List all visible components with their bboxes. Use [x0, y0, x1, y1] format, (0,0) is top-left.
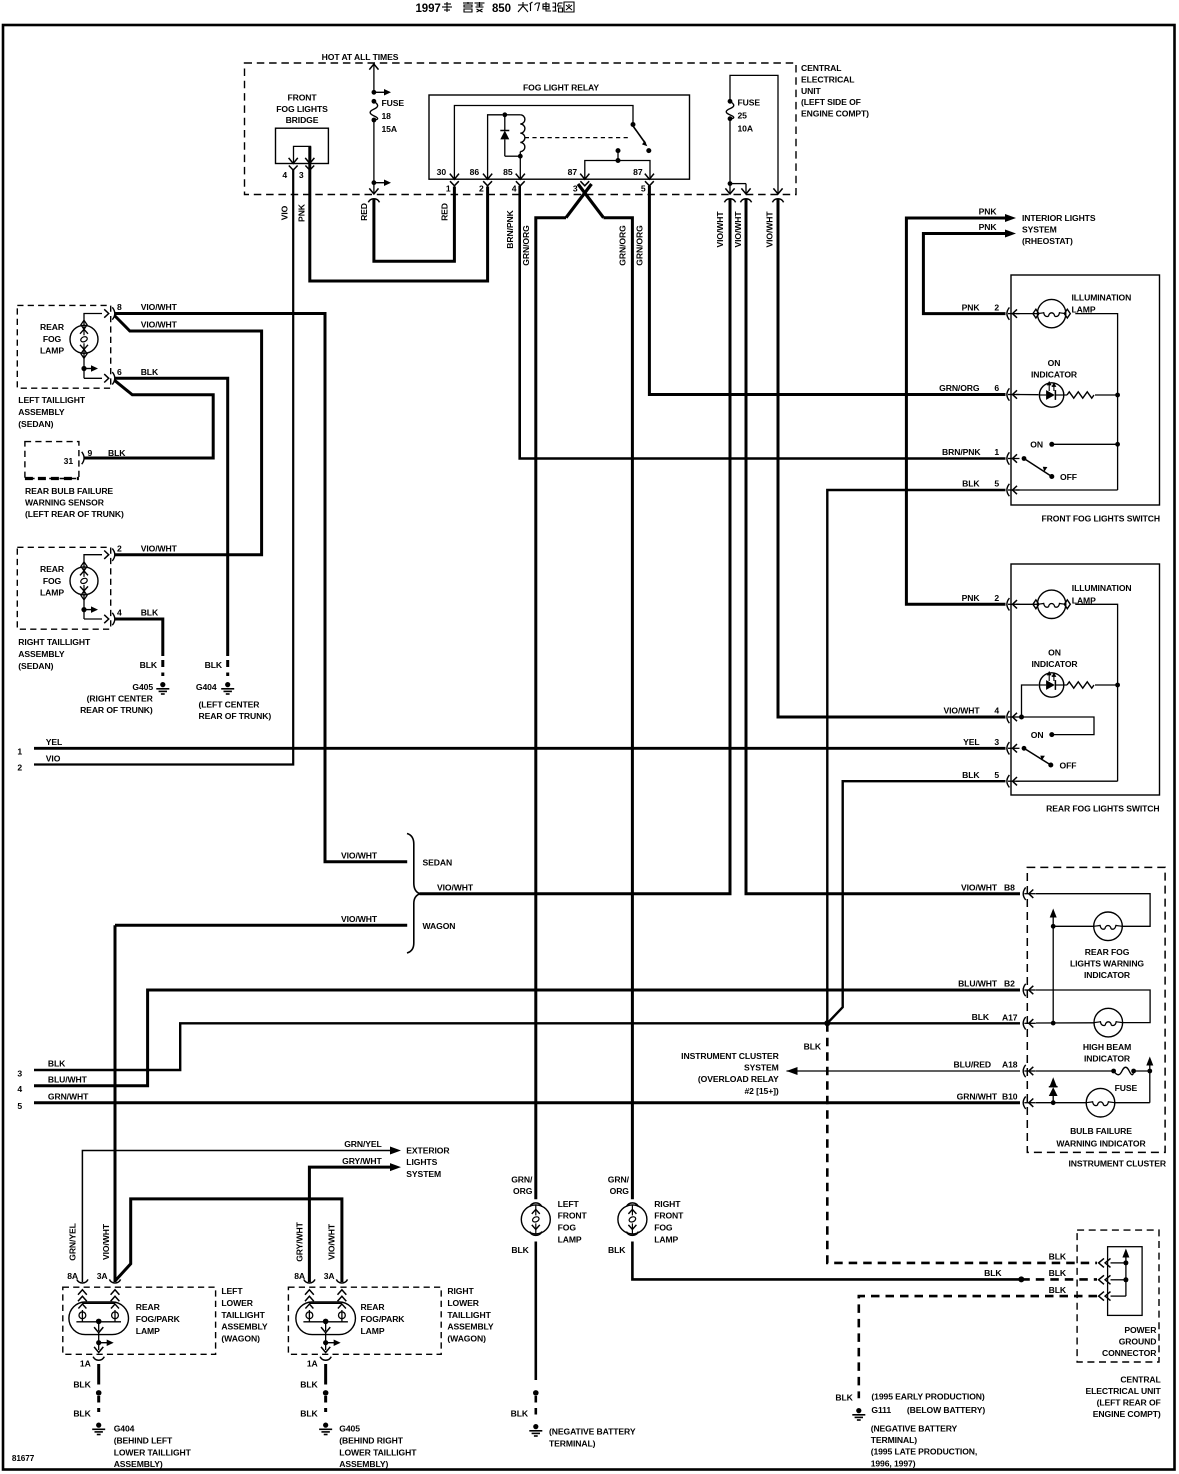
fuse F18 symbol: [370, 99, 378, 123]
front fog lights bridge box: [276, 128, 329, 163]
lamp top wire to pin8: [84, 314, 102, 326]
label B2: [1004, 979, 1015, 989]
ground G405: [156, 682, 169, 694]
label INTERIOR LIGHTS SYSTEM: [1022, 213, 1096, 246]
svg-text:(LEFT CENTER: (LEFT CENTER: [199, 700, 261, 710]
svg-text:10A: 10A: [738, 124, 753, 134]
svg-text:BLK: BLK: [1049, 1285, 1067, 1295]
svg-text:(WAGON): (WAGON): [221, 1334, 260, 1344]
label A17: [1002, 1013, 1018, 1023]
svg-text:ASSEMBLY: ASSEMBLY: [18, 407, 65, 417]
svg-text:CENTRAL: CENTRAL: [1120, 1374, 1160, 1384]
wire resistor to common rear: [1095, 683, 1120, 688]
front switch pin 6 connector: [1007, 388, 1020, 400]
label RED right (vertical): [440, 203, 450, 221]
svg-text:VIO/WHT: VIO/WHT: [101, 1223, 111, 1260]
label BLK L: [511, 1245, 529, 1255]
relay pin number 2: [479, 184, 484, 194]
relay pin number 3: [573, 184, 578, 194]
power ground connector box (dashed): [1077, 1230, 1159, 1362]
svg-text:4: 4: [282, 170, 287, 180]
svg-text:ORG: ORG: [610, 1186, 630, 1196]
svg-text:2: 2: [479, 184, 484, 194]
wire VIO/WHT wagon feed row: [115, 924, 407, 927]
label G111 block: [871, 1392, 986, 1469]
rear fog lamp bulb left (sedan): [70, 320, 98, 358]
wire BLK dashed G111: [859, 1296, 1097, 1398]
wire VIO/WHT ceu-a to sedan/wagon brace: [420, 199, 731, 894]
wire PNK to front switch illumination: [923, 234, 1005, 314]
svg-text:VIO/WHT: VIO/WHT: [715, 211, 725, 248]
label BLK pin6: [141, 367, 159, 377]
fuse 25 out conn c: [772, 188, 783, 202]
svg-text:86: 86: [470, 167, 480, 177]
label BLK lower R: [300, 1409, 318, 1419]
svg-text:FOG: FOG: [558, 1223, 577, 1233]
wire GRN/ORG left branch: [536, 218, 566, 1200]
lamp down arrow 2 L: [94, 1347, 103, 1353]
ground negative battery terminal: [529, 1424, 542, 1436]
fuse 25 wire lower: [729, 119, 731, 184]
svg-text:BLU/WHT: BLU/WHT: [48, 1074, 88, 1084]
label VIO/WHT brace out: [437, 882, 474, 892]
left taillight pin 8 connector: [104, 307, 115, 319]
sensor pin 9 connector: [82, 452, 84, 464]
front fog lights switch box: [1011, 275, 1160, 505]
title char da: [518, 2, 528, 12]
bridge inner notch: [294, 146, 311, 163]
label REAR FOG LAMP right: [40, 564, 65, 598]
svg-text:EXTERIOR: EXTERIOR: [406, 1145, 450, 1155]
wire VIO/WHT wagon link: [115, 1199, 342, 1282]
svg-text:FUSE: FUSE: [382, 98, 405, 108]
lamp common dot L: [96, 1319, 102, 1325]
label YEL edge: [46, 737, 62, 747]
wire BLK lamp ground R: [324, 1364, 327, 1385]
left taillight pin 6 connector: [104, 372, 115, 384]
svg-text:VIO/WHT: VIO/WHT: [327, 1223, 337, 1260]
svg-text:2: 2: [117, 543, 122, 553]
svg-text:4: 4: [117, 608, 122, 618]
rear fog/park lamp body L: [69, 1302, 129, 1335]
label INSTRUMENT CLUSTER SYSTEM: [681, 1051, 779, 1096]
illumination lamp DS2 (rear): [1033, 590, 1070, 618]
svg-text:BLK: BLK: [972, 1012, 990, 1022]
rear fog warning indicator lamp: [1094, 912, 1123, 941]
label pin number 5 front: [994, 479, 999, 489]
wire pin4 to ON contact rear: [1022, 717, 1095, 735]
wire GRY/WHT: [309, 1167, 390, 1282]
svg-text:4: 4: [512, 184, 517, 194]
wire BLK dashes G404: [226, 660, 229, 676]
label EXTERIOR LIGHTS SYSTEM: [406, 1145, 450, 1179]
label 3A left: [97, 1271, 108, 1281]
label BLK upper R: [300, 1380, 318, 1390]
svg-text:LOWER TAILLIGHT: LOWER TAILLIGHT: [114, 1447, 192, 1457]
svg-text:OFF: OFF: [1060, 761, 1077, 771]
label BLK battery: [511, 1409, 529, 1419]
lamp pin 3A connector L: [109, 1279, 120, 1301]
rear switch pin4 junction dot: [1019, 715, 1024, 720]
ground symbol R: [319, 1423, 332, 1435]
label BLK pgc row1: [1049, 1252, 1067, 1262]
svg-text:BLK: BLK: [48, 1059, 66, 1069]
svg-text:PNK: PNK: [962, 302, 981, 312]
svg-text:9: 9: [88, 448, 93, 458]
label PNK row1: [979, 207, 998, 217]
ground G111: [852, 1408, 865, 1420]
relay coil bottom dot: [505, 154, 523, 159]
label 8A left: [67, 1271, 78, 1281]
fuse 18 wire lower: [373, 120, 375, 183]
relay coil feed dot: [502, 112, 507, 117]
svg-text:GRN/: GRN/: [511, 1174, 533, 1184]
label assembly L: [221, 1286, 268, 1344]
svg-text:BRN/PNK: BRN/PNK: [942, 447, 981, 457]
label BLK edge: [48, 1059, 66, 1069]
instrument cluster system arrow: [787, 1067, 1021, 1075]
label REAR FOG LIGHTS SWITCH: [1046, 803, 1159, 813]
left fog ground dot: [533, 1390, 539, 1396]
label lamp name L: [558, 1199, 588, 1245]
pgc terminal row3: [1099, 1292, 1126, 1301]
cluster internal B2 wire: [1036, 990, 1150, 1023]
svg-text:GRN/ORG: GRN/ORG: [635, 225, 645, 266]
label VIO/WHT a (vertical): [715, 211, 725, 248]
label pin number 3 rear: [994, 737, 999, 747]
label pin number 2 front: [994, 302, 999, 312]
rear switch ON contact: [1031, 730, 1055, 740]
svg-text:ASSEMBLY: ASSEMBLY: [221, 1322, 268, 1332]
wire illum lamp to common (front): [1075, 314, 1117, 490]
wire BLK tick3 to cluster A17: [34, 1023, 1020, 1070]
fuse 25 top feed: [730, 75, 778, 193]
svg-text:POWER: POWER: [1124, 1325, 1157, 1335]
label PNK (vertical): [296, 203, 306, 222]
svg-text:81677: 81677: [12, 1454, 35, 1463]
led ON indicator front: [1039, 381, 1063, 407]
label B8: [1004, 882, 1015, 892]
label BLU/WHT B2: [958, 979, 998, 989]
label VIO/WHT wagon row: [341, 914, 378, 924]
label REAR FOG LAMP left: [40, 322, 65, 356]
svg-text:2: 2: [994, 593, 999, 603]
bridge pin 3 arrow: [305, 158, 314, 170]
relay pin number 1: [446, 184, 451, 194]
relay pin label 87b: [633, 167, 643, 177]
fuse 25 out conn b: [740, 188, 751, 202]
svg-text:25: 25: [738, 111, 748, 121]
lower taillight box (dashed) L: [63, 1287, 216, 1354]
svg-text:GRY/WHT: GRY/WHT: [294, 1221, 304, 1261]
svg-text:GRN/WHT: GRN/WHT: [48, 1091, 89, 1101]
label BULB FAILURE WARNING INDICATOR: [1056, 1126, 1146, 1148]
svg-text:5: 5: [641, 184, 646, 194]
svg-text:1997: 1997: [416, 3, 441, 15]
svg-text:BLK: BLK: [140, 660, 158, 670]
label FUSE cluster: [1115, 1083, 1138, 1093]
label 6: [117, 367, 122, 377]
svg-text:GRN/YEL: GRN/YEL: [67, 1223, 77, 1261]
rear fog lamp bulb right (sedan): [70, 562, 98, 600]
label VIO/WHT wagonL (vertical): [101, 1223, 111, 1260]
svg-text:PNK: PNK: [962, 593, 981, 603]
svg-text:HOT AT ALL TIMES: HOT AT ALL TIMES: [322, 52, 399, 62]
label VIO/WHT c (vertical): [764, 211, 774, 248]
label VIO/WHT pin4: [943, 706, 980, 716]
front switch pin 1 connector: [1007, 452, 1020, 464]
label LEFT TAILLIGHT ASSEMBLY (SEDAN): [18, 395, 86, 429]
fog lamp top connector R: [626, 1203, 638, 1207]
svg-text:87: 87: [568, 167, 578, 177]
svg-text:FOG: FOG: [654, 1223, 673, 1233]
label GRN/WHT edge: [48, 1091, 89, 1101]
wire YEL: [34, 747, 1006, 750]
cluster internal B8 wire: [1036, 894, 1150, 927]
svg-text:ILLUMINATION: ILLUMINATION: [1072, 292, 1132, 302]
edge tick 2 label: [17, 762, 22, 772]
svg-text:(1995 LATE PRODUCTION,: (1995 LATE PRODUCTION,: [871, 1447, 978, 1457]
svg-text:8A: 8A: [294, 1271, 305, 1281]
wire VIO/WHT wagon vertical: [114, 925, 117, 1282]
wire pin5 to common rear: [1016, 780, 1118, 782]
pgc terminal row2: [1099, 1275, 1126, 1284]
left taillight assembly box (dashed): [17, 305, 110, 388]
wire BLK right fog lamp: [632, 1242, 1021, 1280]
svg-text:WAGON: WAGON: [423, 921, 456, 931]
svg-text:(BELOW BATTERY): (BELOW BATTERY): [907, 1405, 985, 1415]
svg-text:FRONT: FRONT: [558, 1211, 588, 1221]
svg-text:5: 5: [994, 770, 999, 780]
label GRN/YEL row: [344, 1139, 382, 1149]
fuse 18 feed arrow: [369, 64, 378, 92]
svg-text:SYSTEM: SYSTEM: [1022, 224, 1057, 234]
label BLK sensor: [108, 448, 126, 458]
svg-text:ON: ON: [1048, 647, 1061, 657]
svg-text:FOG LIGHT RELAY: FOG LIGHT RELAY: [523, 83, 599, 93]
label REAR FOG/PARK LAMP L: [136, 1302, 181, 1336]
edge tick 5 label: [17, 1101, 22, 1111]
right taillight pin 2 connector: [104, 549, 115, 561]
rear switch pin 3 connector: [1007, 742, 1020, 754]
label GRY/WHT row: [342, 1156, 382, 1166]
wire BLK dashes G405: [161, 660, 164, 676]
svg-text:(LEFT REAR OF: (LEFT REAR OF: [1097, 1398, 1161, 1408]
svg-text:REAR FOG: REAR FOG: [1085, 947, 1130, 957]
title text 1997: [416, 3, 511, 15]
svg-text:FOG LIGHTS: FOG LIGHTS: [276, 104, 328, 114]
label BRN/PNK pin1: [942, 447, 981, 457]
label RED left (vertical): [359, 203, 369, 221]
svg-text:ENGINE COMPT): ENGINE COMPT): [1093, 1409, 1161, 1419]
wire BLK front switch: [827, 490, 1005, 1023]
label PNK row2: [979, 222, 998, 232]
svg-text:INTERIOR LIGHTS: INTERIOR LIGHTS: [1022, 213, 1096, 223]
label 31: [64, 456, 74, 466]
wire PNK bridge-relay: [310, 146, 488, 281]
lamp down arrow 1 R: [321, 1321, 330, 1332]
arrow exterior lights 2: [390, 1163, 401, 1171]
svg-text:3: 3: [994, 737, 999, 747]
svg-text:TAILLIGHT: TAILLIGHT: [447, 1310, 491, 1320]
wire pin2 to illum lamp front: [1016, 313, 1037, 315]
edge tick 4 label: [17, 1084, 22, 1094]
svg-text:ASSEMBLY): ASSEMBLY): [114, 1459, 163, 1469]
arrow exterior lights 1: [390, 1147, 401, 1155]
svg-text:FRONT: FRONT: [287, 93, 317, 103]
cluster fuse arrow up: [1146, 1057, 1153, 1072]
rear switch pin 5 connector: [1007, 775, 1020, 787]
wire resistor to common front: [1095, 393, 1120, 398]
lamp tap dot + arrow L: [96, 1333, 114, 1350]
svg-text:OFF: OFF: [1060, 472, 1077, 482]
svg-text:G405: G405: [339, 1424, 360, 1434]
svg-text:BLK: BLK: [608, 1245, 626, 1255]
svg-text:5: 5: [17, 1101, 22, 1111]
label BLK R: [608, 1245, 626, 1255]
svg-text:LOWER: LOWER: [221, 1298, 253, 1308]
label PNK pin2 rear: [962, 593, 981, 603]
edge tick 3 label: [17, 1068, 22, 1078]
wire BLK left fog lamp to battery: [534, 1242, 537, 1381]
cluster junction vertical: [1052, 926, 1054, 1023]
svg-text:GRN/ORG: GRN/ORG: [939, 383, 980, 393]
lamp ground connector R: [307, 1357, 331, 1369]
svg-text:(WAGON): (WAGON): [447, 1334, 486, 1344]
relay pin label 85: [503, 167, 513, 177]
svg-text:1A: 1A: [307, 1359, 318, 1369]
svg-text:INSTRUMENT CLUSTER: INSTRUMENT CLUSTER: [1068, 1159, 1166, 1169]
front switch pin 2 connector: [1007, 307, 1020, 319]
svg-text:6: 6: [994, 383, 999, 393]
svg-text:VIO/WHT: VIO/WHT: [943, 706, 980, 716]
label SEDAN: [423, 857, 453, 867]
svg-text:RED: RED: [359, 203, 369, 221]
label BLK pin4: [141, 608, 159, 618]
cluster connector A18: [1023, 1065, 1036, 1077]
label assembly R: [447, 1286, 494, 1344]
wire BLK dashed from junction: [827, 1023, 1097, 1263]
wire led left to pin4 rear: [1022, 685, 1039, 717]
svg-text:BLK: BLK: [962, 479, 980, 489]
svg-text:15A: 15A: [382, 124, 397, 134]
svg-text:1996, 1997): 1996, 1997): [871, 1458, 916, 1468]
label VIO/WHT pin8: [141, 302, 178, 312]
svg-text:ELECTRICAL: ELECTRICAL: [801, 74, 854, 84]
svg-text:BLK: BLK: [511, 1409, 529, 1419]
svg-text:8: 8: [117, 302, 122, 312]
arrow to interior lights 2: [1005, 230, 1016, 238]
label pin number 1 front: [994, 447, 999, 457]
svg-text:6: 6: [117, 367, 122, 377]
svg-text:LOWER: LOWER: [447, 1298, 479, 1308]
svg-text:VIO/WHT: VIO/WHT: [141, 543, 178, 553]
label 4: [117, 608, 122, 618]
bridge pin label 3: [299, 170, 304, 180]
svg-text:G404: G404: [114, 1424, 135, 1434]
svg-text:GROUND: GROUND: [1119, 1336, 1157, 1346]
bridge pin 4 arrow: [289, 158, 298, 170]
relay internal wire 87 bar: [585, 161, 650, 180]
svg-text:YEL: YEL: [46, 737, 62, 747]
title char lu: [553, 3, 563, 12]
svg-text:HIGH BEAM: HIGH BEAM: [1083, 1042, 1131, 1052]
svg-text:WARNING SENSOR: WARNING SENSOR: [25, 498, 105, 508]
svg-text:BLK: BLK: [1049, 1252, 1067, 1262]
label GRN/ORG R: [608, 1174, 630, 1196]
rear switch blade: [1022, 746, 1054, 768]
label ON INDICATOR rear: [1031, 647, 1078, 669]
wire GRN/YEL: [82, 1151, 390, 1283]
svg-text:ASSEMBLY): ASSEMBLY): [339, 1459, 388, 1469]
svg-text:INDICATOR: INDICATOR: [1031, 370, 1078, 380]
label BLK G111: [835, 1392, 853, 1402]
lamp bottom wire to pin4: [84, 618, 102, 620]
svg-text:FRONT FOG LIGHTS SWITCH: FRONT FOG LIGHTS SWITCH: [1042, 514, 1160, 524]
label PNK pin2: [962, 302, 981, 312]
svg-text:GRN/: GRN/: [608, 1174, 630, 1184]
title char fu: [463, 2, 473, 12]
pgc inner box: [1108, 1247, 1143, 1316]
svg-text:CENTRAL: CENTRAL: [801, 63, 841, 73]
wire pin2 to illum lamp rear: [1016, 603, 1037, 605]
svg-text:TERMINAL): TERMINAL): [871, 1435, 918, 1445]
svg-text:G404: G404: [196, 682, 217, 692]
fuse 18 tap dot lower: [372, 179, 392, 186]
lamp pin 8A connector L: [77, 1279, 88, 1301]
right taillight assembly box (dashed): [17, 547, 110, 629]
svg-text:LOWER TAILLIGHT: LOWER TAILLIGHT: [339, 1447, 417, 1457]
svg-text:BLK: BLK: [205, 660, 223, 670]
label GRN/YEL (vertical): [67, 1223, 77, 1261]
svg-text:18: 18: [382, 111, 392, 121]
cluster arrow up 1: [1050, 909, 1057, 927]
rear switch pin 2 connector: [1007, 598, 1020, 610]
label HIGH BEAM INDICATOR: [1083, 1042, 1131, 1064]
svg-text:BLK: BLK: [984, 1268, 1002, 1278]
wire BLK lamp ground L: [97, 1364, 100, 1385]
svg-text:ASSEMBLY: ASSEMBLY: [447, 1322, 494, 1332]
ground chain dot R: [323, 1390, 329, 1396]
label VIO (vertical): [280, 205, 290, 220]
svg-text:A18: A18: [1002, 1060, 1018, 1070]
label FRONT FOG LIGHTS BRIDGE: [276, 93, 328, 126]
svg-text:(LEFT REAR OF TRUNK): (LEFT REAR OF TRUNK): [25, 509, 124, 519]
svg-text:RIGHT TAILLIGHT: RIGHT TAILLIGHT: [18, 637, 91, 647]
svg-text:SYSTEM: SYSTEM: [744, 1063, 779, 1073]
lamp pin 3A connector R: [336, 1279, 347, 1301]
svg-text:INSTRUMENT CLUSTER: INSTRUMENT CLUSTER: [681, 1051, 779, 1061]
label GRN/ORG pin5 (vertical): [635, 225, 645, 266]
ground chain dot L: [96, 1390, 102, 1396]
svg-text:ON: ON: [1031, 730, 1044, 740]
fuse 18 tap dot upper: [372, 89, 392, 96]
fog lamp top connector L: [530, 1203, 542, 1207]
rear fog/park lamp body R: [296, 1302, 356, 1335]
svg-text:3: 3: [299, 170, 304, 180]
label 3A right: [324, 1271, 335, 1281]
svg-text:VIO/WHT: VIO/WHT: [437, 882, 474, 892]
front switch ON contact: [1030, 440, 1120, 450]
svg-text:(SEDAN): (SEDAN): [18, 661, 53, 671]
svg-text:FUSE: FUSE: [738, 98, 761, 108]
relay pin 1 connector: [450, 174, 459, 186]
svg-text:GRY/WHT: GRY/WHT: [342, 1156, 382, 1166]
fuse 25 branch dot: [728, 181, 746, 193]
svg-text:INDICATOR: INDICATOR: [1084, 1054, 1131, 1064]
label pin number 4 rear: [994, 706, 999, 716]
relay coil L1: [505, 115, 525, 156]
